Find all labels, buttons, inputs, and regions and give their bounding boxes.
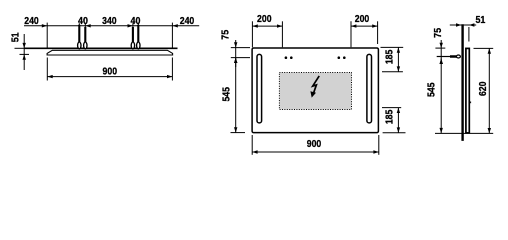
extension tick at mirror left edge [46, 23, 48, 48]
svg-text:75: 75 [432, 28, 444, 38]
svg-text:240: 240 [24, 15, 39, 27]
51 dimension (side view) [450, 24, 476, 26]
900 arrow left [47, 75, 52, 78]
75 arrow down (side) [440, 43, 443, 48]
heated zone (dashed gray rectangle) [279, 73, 351, 110]
svg-text:200: 200 [257, 13, 272, 25]
900 width dimension (left view) [46, 58, 48, 81]
545 arrow down [234, 127, 237, 132]
51 arrow down to wall [23, 43, 26, 48]
wall line (top view) [24, 47, 177, 49]
right light strip outer [367, 54, 372, 123]
bottom tick (side view, shared 545/620) [435, 132, 493, 134]
svg-text:545: 545 [426, 82, 438, 97]
185 bottom arrow up [397, 108, 400, 113]
svg-text:340: 340 [102, 15, 117, 27]
900 dimension (front view bottom) [251, 135, 253, 155]
200 right outer extension [377, 21, 379, 44]
top dimension chain line [24, 25, 199, 27]
mirror front outline [252, 48, 378, 133]
545 arrow down (side) [440, 128, 443, 133]
200 right arrow left [351, 24, 356, 27]
51 arrow up to mirror front [23, 54, 26, 59]
545 dimension (side view) [440, 59, 442, 134]
51 extension tick at wall level [15, 47, 29, 49]
620 arrow down [488, 128, 491, 133]
545 arrow up [234, 58, 237, 63]
51 arrow right to wall [456, 23, 461, 26]
51 depth dimension line (left view) [23, 34, 25, 70]
75 dimension (front view left) [235, 40, 237, 67]
51 arrow left to mirror front [469, 23, 474, 26]
185 top dimension line [397, 47, 399, 71]
545 arrow up (side) [440, 59, 443, 64]
200 left arrow right [277, 24, 282, 27]
75 bottom tick [231, 57, 250, 59]
75 arrow up [234, 58, 237, 63]
svg-text:40: 40 [131, 15, 141, 27]
mounting hole dots [285, 56, 288, 59]
51 extension line at mirror front [468, 27, 470, 42]
900 dimension line [47, 76, 172, 78]
200 left dimension [251, 21, 253, 47]
svg-text:545: 545 [221, 87, 233, 102]
75 dimension (side view) [440, 40, 442, 64]
900 right extension (front) [378, 135, 380, 155]
arrow right at pin 3 (340 inside arrow) [128, 24, 133, 27]
svg-text:240: 240 [180, 15, 195, 27]
arrow left at pin 2 (340 inside arrow) [85, 24, 90, 27]
chain dot at pin 1 [78, 25, 81, 28]
mounting pin (side view) head [456, 55, 460, 58]
900 arrow left (front) [252, 150, 257, 153]
svg-text:900: 900 [103, 66, 118, 78]
wall line (side view) [461, 24, 463, 141]
svg-text:51: 51 [9, 32, 21, 42]
mounting pin 4 stem (top view) [137, 23, 139, 28]
arrow left at right mirror edge (240 outside arrow) [172, 24, 177, 27]
mounting pin 4 head [137, 42, 140, 49]
mounting pin 3 stem (top view) [132, 23, 134, 28]
mounting pin 1 stem (top view) [78, 23, 80, 28]
545 bottom tick [231, 132, 246, 134]
svg-text:185: 185 [384, 110, 396, 125]
200 right arrow right [372, 24, 377, 27]
200 right dimension [350, 21, 352, 47]
200 left inner extension [281, 21, 283, 47]
200 right dimension line [351, 25, 378, 27]
mounting pin 2 stem (top view) [84, 23, 86, 28]
svg-text:51: 51 [475, 14, 485, 26]
chain dot at pin 4 [137, 25, 140, 28]
75 arrow up (side) [440, 59, 443, 64]
left light strip outer [257, 54, 262, 123]
arrow right at left mirror edge (240 outside arrow) [42, 24, 47, 27]
svg-text:620: 620 [477, 81, 489, 96]
900 dimension line (front) [252, 151, 379, 153]
75 top tick [231, 47, 250, 49]
svg-text:200: 200 [355, 13, 370, 25]
mounting pin (side view) thin line [437, 56, 451, 58]
75 top tick (side) [435, 47, 445, 49]
sensor notch (side view) [470, 102, 472, 104]
svg-text:900: 900 [307, 138, 322, 150]
extension tick at mirror right edge [171, 23, 173, 48]
svg-text:40: 40 [78, 15, 88, 27]
620 arrow up [488, 48, 491, 53]
75 arrow down [234, 42, 237, 47]
mirror slab (side view) [466, 48, 469, 132]
mirror body outline (top view trapezoid) [47, 50, 173, 55]
620 dimension line [488, 48, 490, 133]
mounting pin 1 head [78, 42, 81, 49]
mounting pin 2 head [84, 42, 87, 49]
200 left arrow left [252, 24, 257, 27]
lightning bolt arrowhead [310, 91, 316, 97]
185 bottom dimension line [397, 108, 399, 133]
185 top arrow up [397, 47, 400, 52]
185 bottom arrow down [397, 127, 400, 132]
185 top bottom tick [382, 71, 403, 73]
200 left dimension line [252, 25, 282, 27]
svg-text:75: 75 [220, 30, 232, 40]
lightning bolt symbol [313, 76, 320, 93]
900 arrow right [167, 75, 172, 78]
185 bottom dimension (front view right) [382, 107, 401, 109]
185 bottom bottom tick [383, 132, 406, 134]
185 top arrow down [397, 66, 400, 71]
900 arrow right (front) [373, 150, 378, 153]
620 dimension (side view) [474, 47, 494, 49]
mounting pin 3 head [131, 42, 134, 49]
545 dimension (front view left) [235, 58, 237, 133]
185 top dimension (front view right) [381, 46, 404, 48]
mounting pin (side view) shaft [450, 55, 457, 58]
svg-text:185: 185 [384, 50, 396, 65]
900 right extension line [171, 58, 173, 81]
51 extension tick at mirror front [20, 53, 30, 55]
